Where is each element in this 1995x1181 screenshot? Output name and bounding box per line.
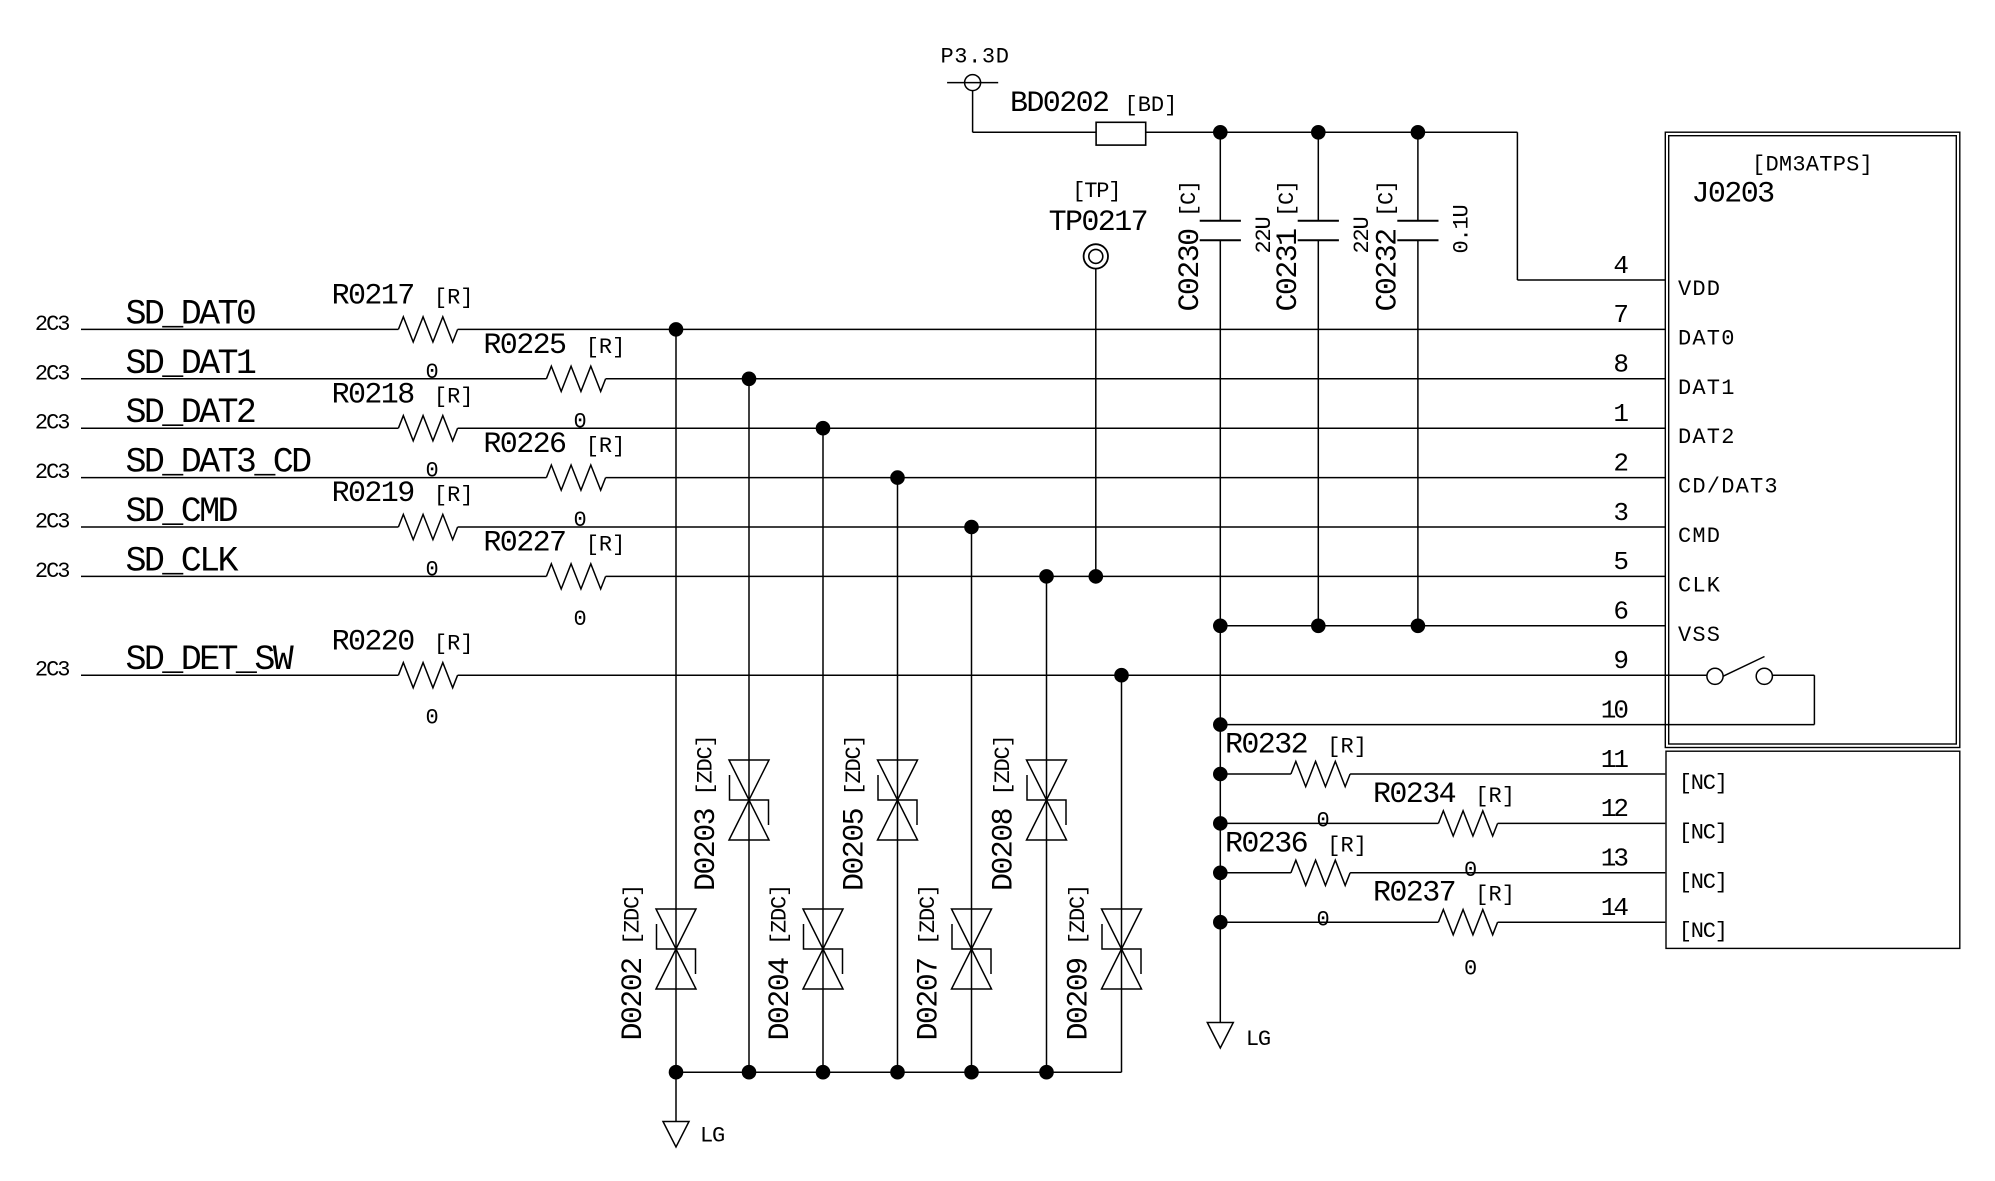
- pin number 5: [1613, 547, 1627, 577]
- svg-text:[NC]: [NC]: [1679, 919, 1727, 944]
- junction: [890, 1065, 905, 1080]
- wire: [1516, 132, 1518, 280]
- switch arm: [1723, 657, 1764, 677]
- wire: [81, 575, 546, 577]
- node SD_DAT2: [35, 393, 255, 436]
- wire: [606, 575, 1666, 577]
- pin label VDD: [1678, 277, 1721, 302]
- wire: [897, 478, 899, 1073]
- junction: [1311, 619, 1326, 634]
- value 0 (R0226): [573, 508, 585, 533]
- svg-text:0: 0: [425, 558, 437, 583]
- svg-text:R0220: R0220: [332, 625, 415, 659]
- svg-text:0: 0: [573, 607, 585, 632]
- value 0 (R0225): [573, 409, 585, 434]
- diode D0205: [878, 760, 918, 840]
- svg-text:2C3: 2C3: [35, 312, 69, 337]
- wire: [1121, 675, 1123, 1072]
- label TP0217 [TP]: [1049, 179, 1147, 240]
- svg-text:P3.3D: P3.3D: [941, 45, 1010, 70]
- svg-text:[R]: [R]: [1327, 735, 1367, 760]
- value 0 (R0218): [425, 459, 437, 484]
- resistor R0232: [1291, 761, 1350, 786]
- pin number 7: [1613, 300, 1627, 330]
- value 0 (R0219): [425, 558, 437, 583]
- pin label DAT2: [1678, 425, 1736, 450]
- node SD_CMD: [35, 492, 238, 535]
- junction: [1039, 569, 1054, 584]
- wire: [1095, 269, 1097, 577]
- wire: [458, 674, 1707, 676]
- junction: [1089, 569, 1104, 584]
- svg-text:SD_DAT2: SD_DAT2: [126, 393, 255, 433]
- test point TP0217: [1084, 244, 1108, 268]
- resistor R0237: [1438, 910, 1497, 935]
- label C0232 [C]: [1372, 181, 1406, 312]
- svg-text:[TP]: [TP]: [1072, 179, 1120, 204]
- wire: [1146, 131, 1518, 133]
- svg-text:CLK: CLK: [1678, 573, 1721, 598]
- wire: [1220, 872, 1291, 874]
- svg-text:R0234: R0234: [1373, 778, 1456, 812]
- svg-text:DAT0: DAT0: [1678, 326, 1736, 351]
- svg-text:0: 0: [1464, 957, 1476, 982]
- resistor R0234: [1438, 811, 1497, 836]
- svg-text:VSS: VSS: [1678, 623, 1721, 648]
- pin label CLK: [1678, 573, 1721, 598]
- wire: [81, 526, 398, 528]
- svg-text:[R]: [R]: [434, 286, 474, 311]
- junction: [1213, 125, 1228, 140]
- pin number 4: [1613, 251, 1628, 281]
- label R0237 [R]: [1373, 877, 1515, 911]
- node SD_DET_SW: [35, 640, 294, 683]
- pin label CD/DAT3: [1678, 475, 1779, 500]
- ferrite bead BD0202: [1096, 122, 1146, 145]
- svg-text:2C3: 2C3: [35, 460, 69, 485]
- svg-text:0: 0: [573, 508, 585, 533]
- wire: [676, 1071, 1122, 1073]
- wire: [458, 328, 1666, 330]
- svg-text:R0227: R0227: [483, 527, 565, 561]
- svg-text:0: 0: [1316, 809, 1328, 834]
- wire: [606, 477, 1666, 479]
- wire: [973, 131, 1097, 133]
- svg-text:6: 6: [1613, 597, 1627, 627]
- pin number 6: [1613, 597, 1627, 627]
- node SD_DAT1: [35, 344, 256, 387]
- wire: [822, 428, 824, 1072]
- svg-text:0: 0: [425, 706, 437, 731]
- pin number 10: [1601, 695, 1628, 725]
- diode D0204: [803, 909, 843, 989]
- value 22U: [1252, 217, 1277, 253]
- svg-text:[NC]: [NC]: [1679, 771, 1727, 796]
- svg-text:R0217: R0217: [332, 280, 414, 314]
- label R0225 [R]: [483, 329, 625, 363]
- svg-text:R0232: R0232: [1225, 729, 1307, 763]
- junction: [742, 1065, 757, 1080]
- svg-text:D0202: D0202: [617, 958, 651, 1040]
- label R0217 [R]: [332, 280, 474, 314]
- pin label [NC]: [1679, 820, 1727, 845]
- junction: [1213, 619, 1228, 634]
- svg-text:[NC]: [NC]: [1679, 820, 1727, 845]
- node SD_CLK: [35, 541, 239, 584]
- wire: [458, 427, 1666, 429]
- svg-text:R0237: R0237: [1373, 877, 1455, 911]
- svg-text:R0219: R0219: [332, 477, 414, 511]
- svg-text:CMD: CMD: [1678, 524, 1721, 549]
- junction: [1213, 816, 1228, 831]
- label R0226 [R]: [483, 428, 625, 462]
- svg-text:7: 7: [1613, 300, 1627, 330]
- label C0231 [C]: [1272, 181, 1306, 312]
- wire: [1517, 279, 1665, 281]
- connector J0203 outline: [1665, 132, 1960, 747]
- value 0.1U: [1449, 205, 1474, 253]
- svg-text:D0203: D0203: [690, 808, 724, 891]
- resistor R0236: [1291, 860, 1350, 885]
- pin label DAT1: [1678, 376, 1736, 401]
- svg-text:R0218: R0218: [332, 378, 415, 412]
- svg-text:[ZDC]: [ZDC]: [768, 885, 793, 945]
- pin label [NC]: [1679, 870, 1727, 895]
- value 0 (R0237): [1464, 957, 1476, 982]
- resistor R0219: [398, 514, 457, 539]
- svg-text:C0230: C0230: [1174, 229, 1208, 312]
- svg-text:[BD]: [BD]: [1125, 93, 1178, 118]
- label R0219 [R]: [332, 477, 474, 511]
- svg-text:J0203: J0203: [1692, 178, 1775, 212]
- svg-text:13: 13: [1601, 844, 1628, 874]
- wire: [81, 328, 398, 330]
- ground LG: [663, 1122, 724, 1149]
- wire: [1220, 822, 1438, 824]
- label C0230 [C]: [1174, 181, 1208, 312]
- svg-text:[R]: [R]: [434, 631, 474, 656]
- wire: [81, 674, 398, 676]
- svg-text:VDD: VDD: [1678, 277, 1721, 302]
- junction: [964, 1065, 979, 1080]
- value 0 (R0236): [1316, 907, 1328, 932]
- label R0227 [R]: [483, 527, 625, 561]
- wire: [1220, 625, 1665, 627]
- svg-text:R0226: R0226: [483, 428, 566, 462]
- capacitor C0231: [1298, 132, 1339, 626]
- junction: [1213, 915, 1228, 930]
- svg-text:SD_DAT0: SD_DAT0: [126, 294, 255, 334]
- wire: [675, 1072, 677, 1121]
- svg-text:5: 5: [1613, 547, 1627, 577]
- wire: [1220, 921, 1438, 923]
- junction: [1039, 1065, 1054, 1080]
- svg-text:9: 9: [1613, 646, 1627, 676]
- svg-text:2C3: 2C3: [35, 559, 69, 584]
- svg-text:D0208: D0208: [988, 808, 1022, 891]
- svg-text:BD0202: BD0202: [1010, 87, 1108, 121]
- svg-text:12: 12: [1601, 794, 1628, 824]
- svg-text:0: 0: [1316, 907, 1328, 932]
- wire: [1046, 576, 1048, 1072]
- svg-text:[ZDC]: [ZDC]: [621, 885, 646, 945]
- pin number 12: [1601, 794, 1628, 824]
- junction: [669, 1065, 684, 1080]
- label R0236 [R]: [1225, 827, 1367, 861]
- svg-text:LG: LG: [1246, 1027, 1270, 1052]
- junction: [1213, 717, 1228, 732]
- wire: [1220, 773, 1291, 775]
- pin number 14: [1601, 893, 1629, 923]
- pin number 3: [1613, 498, 1627, 528]
- junction: [669, 322, 684, 337]
- resistor R0226: [546, 465, 605, 490]
- svg-text:2: 2: [1613, 448, 1627, 478]
- diode D0209: [1102, 909, 1142, 989]
- pin label VSS: [1678, 623, 1721, 648]
- svg-text:[ZDC]: [ZDC]: [1066, 885, 1091, 945]
- svg-text:LG: LG: [700, 1124, 724, 1149]
- svg-text:R0225: R0225: [483, 329, 566, 363]
- label D0207 [ZDC]: [913, 885, 947, 1041]
- junction: [890, 470, 905, 485]
- resistor R0225: [546, 366, 605, 391]
- wire: [81, 378, 546, 380]
- svg-text:[R]: [R]: [586, 533, 626, 558]
- label D0203 [ZDC]: [690, 735, 724, 891]
- svg-text:SD_DAT3_CD: SD_DAT3_CD: [126, 443, 312, 483]
- switch contact: [1756, 668, 1772, 684]
- pin number 1: [1613, 399, 1628, 429]
- ground LG: [1207, 1023, 1270, 1053]
- svg-text:DAT1: DAT1: [1678, 376, 1736, 401]
- wire: [458, 526, 1666, 528]
- svg-text:C0231: C0231: [1272, 229, 1306, 312]
- capacitor C0230: [1200, 132, 1241, 626]
- svg-text:R0236: R0236: [1225, 827, 1308, 861]
- label D0202 [ZDC]: [617, 885, 651, 1041]
- wire: [1219, 626, 1221, 1023]
- junction: [1311, 125, 1326, 140]
- svg-text:[C]: [C]: [1375, 181, 1400, 217]
- svg-text:C0232: C0232: [1372, 229, 1406, 311]
- svg-text:SD_DET_SW: SD_DET_SW: [126, 640, 294, 680]
- resistor R0220: [398, 663, 457, 688]
- svg-text:CD/DAT3: CD/DAT3: [1678, 475, 1779, 500]
- svg-text:SD_DAT1: SD_DAT1: [126, 344, 256, 384]
- switch contact: [1707, 668, 1723, 684]
- junction: [1411, 125, 1426, 140]
- wire: [1350, 773, 1665, 775]
- label BD0202 [BD]: [1010, 87, 1177, 121]
- svg-text:[R]: [R]: [586, 335, 626, 360]
- label J0203: [1692, 178, 1775, 212]
- wire: [1220, 724, 1814, 726]
- diode D0207: [952, 909, 992, 989]
- svg-text:DAT2: DAT2: [1678, 425, 1736, 450]
- svg-text:[C]: [C]: [1177, 181, 1202, 217]
- wire: [81, 427, 398, 429]
- junction: [1213, 866, 1228, 881]
- svg-text:[R]: [R]: [1475, 883, 1515, 908]
- svg-text:2C3: 2C3: [35, 658, 69, 683]
- svg-text:[NC]: [NC]: [1679, 870, 1727, 895]
- power symbol P3.3D: [941, 45, 1010, 91]
- svg-text:[R]: [R]: [1327, 833, 1367, 858]
- pin number 13: [1601, 844, 1628, 874]
- svg-text:[ZDC]: [ZDC]: [842, 735, 867, 795]
- svg-text:2C3: 2C3: [35, 510, 69, 535]
- svg-text:0: 0: [573, 409, 585, 434]
- label D0205 [ZDC]: [839, 735, 873, 891]
- label D0209 [ZDC]: [1063, 885, 1097, 1041]
- wire: [1498, 822, 1666, 824]
- pin number 9: [1613, 646, 1627, 676]
- svg-text:[R]: [R]: [434, 483, 474, 508]
- svg-text:8: 8: [1613, 350, 1627, 380]
- svg-text:[DM3ATPS]: [DM3ATPS]: [1752, 153, 1873, 178]
- label R0218 [R]: [332, 378, 474, 412]
- label R0232 [R]: [1225, 729, 1367, 763]
- svg-text:3: 3: [1613, 498, 1627, 528]
- pin label DAT0: [1678, 326, 1736, 351]
- junction: [1213, 767, 1228, 782]
- svg-text:D0204: D0204: [764, 958, 798, 1041]
- node SD_DAT3_CD: [35, 443, 311, 486]
- label D0208 [ZDC]: [988, 735, 1022, 891]
- wire: [1773, 674, 1815, 676]
- svg-text:[ZDC]: [ZDC]: [991, 735, 1016, 795]
- pin label [NC]: [1679, 771, 1727, 796]
- junction: [816, 1065, 831, 1080]
- label D0204 [ZDC]: [764, 885, 798, 1041]
- wire: [1813, 675, 1815, 724]
- wire: [1350, 872, 1665, 874]
- diode D0202: [656, 909, 696, 989]
- resistor R0227: [546, 564, 605, 589]
- value 0 (R0234): [1464, 858, 1476, 883]
- junction: [1114, 668, 1129, 683]
- value 0 (R0227): [573, 607, 585, 632]
- wire: [972, 91, 974, 133]
- diode D0208: [1027, 760, 1067, 840]
- value 22U: [1350, 217, 1375, 253]
- svg-text:14: 14: [1601, 893, 1629, 923]
- value 0 (R0232): [1316, 809, 1328, 834]
- svg-text:D0207: D0207: [913, 958, 947, 1040]
- value 0 (R0217): [425, 360, 437, 385]
- pin label [NC]: [1679, 919, 1727, 944]
- connector NC box: [1666, 751, 1960, 948]
- svg-text:0.1U: 0.1U: [1449, 205, 1474, 253]
- wire: [971, 527, 973, 1072]
- svg-text:[R]: [R]: [434, 384, 474, 409]
- label R0220 [R]: [332, 625, 474, 659]
- pin number 8: [1613, 350, 1627, 380]
- svg-text:[ZDC]: [ZDC]: [916, 885, 941, 945]
- svg-text:[R]: [R]: [1475, 784, 1515, 809]
- junction: [1411, 619, 1426, 634]
- svg-text:10: 10: [1601, 695, 1628, 725]
- junction: [964, 520, 979, 535]
- label R0234 [R]: [1373, 778, 1515, 812]
- svg-text:0: 0: [1464, 858, 1476, 883]
- node SD_DAT0: [35, 294, 255, 337]
- pin label CMD: [1678, 524, 1721, 549]
- value 0 (R0220): [425, 706, 437, 731]
- wire: [1498, 921, 1666, 923]
- svg-text:0: 0: [425, 459, 437, 484]
- wire: [748, 379, 750, 1072]
- wire: [81, 477, 546, 479]
- resistor R0218: [398, 416, 457, 441]
- svg-text:D0205: D0205: [839, 808, 873, 891]
- pin number 2: [1613, 448, 1627, 478]
- svg-text:D0209: D0209: [1063, 958, 1097, 1040]
- svg-text:[C]: [C]: [1275, 181, 1300, 217]
- diode D0203: [729, 760, 769, 840]
- svg-text:2C3: 2C3: [35, 411, 69, 436]
- junction: [816, 421, 831, 436]
- label [DM3ATPS]: [1752, 153, 1873, 178]
- svg-text:TP0217: TP0217: [1049, 206, 1147, 240]
- svg-text:SD_CLK: SD_CLK: [126, 541, 239, 581]
- pin number 11: [1601, 745, 1629, 775]
- wire: [606, 378, 1666, 380]
- wire: [675, 329, 677, 1072]
- svg-text:2C3: 2C3: [35, 361, 69, 386]
- svg-text:[R]: [R]: [586, 434, 626, 459]
- svg-text:11: 11: [1601, 745, 1629, 775]
- resistor R0217: [398, 317, 457, 342]
- svg-text:[ZDC]: [ZDC]: [694, 735, 719, 795]
- svg-text:0: 0: [425, 360, 437, 385]
- capacitor C0232: [1397, 132, 1438, 626]
- svg-text:SD_CMD: SD_CMD: [126, 492, 238, 532]
- junction: [742, 372, 757, 387]
